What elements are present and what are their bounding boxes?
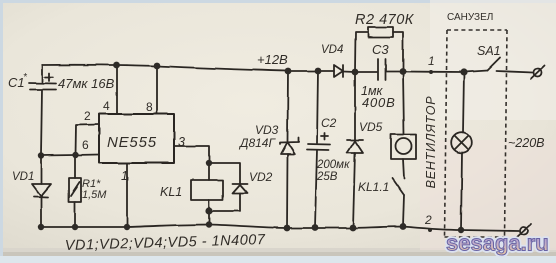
wire top rail right of VD4 [343, 71, 355, 74]
wire SA1 to pivot [464, 71, 487, 73]
svg-text:KL1.1: KL1.1 [358, 180, 389, 194]
svg-text:R2 470К: R2 470К [355, 12, 415, 28]
svg-text:1: 1 [428, 54, 435, 68]
svg-text:KL1: KL1 [160, 185, 182, 199]
capacitor C3 [378, 59, 386, 80]
svg-text:ВЕНТИЛЯТОР: ВЕНТИЛЯТОР [424, 96, 438, 189]
fan motor M1 [391, 72, 416, 178]
svg-text:NE555: NE555 [107, 134, 157, 151]
diode VD4 [334, 65, 343, 77]
wire pin3 to relay [174, 146, 209, 180]
dashed enclosure (bathroom) [445, 30, 508, 237]
node pin8 rail [154, 63, 161, 70]
svg-text:САНУЗЕЛ: САНУЗЕЛ [447, 12, 493, 23]
node A (VD4/C3/R2/VD5) [352, 69, 359, 76]
capacitor C2 [307, 71, 330, 227]
node pin4 rail [113, 62, 120, 69]
node pin2/6 junction [72, 152, 78, 158]
svg-text:VD4: VD4 [321, 44, 343, 56]
svg-text:400В: 400В [362, 95, 396, 110]
svg-text:Д814Г: Д814Г [238, 136, 276, 150]
node 1 marker [429, 70, 433, 74]
node VD3 rail [285, 68, 292, 75]
node VD3 bottom rail [284, 225, 291, 232]
node KL1.1 bottom rail [400, 223, 407, 230]
terminal neutral bottom [517, 225, 531, 238]
node VD2 top [206, 160, 212, 166]
resistor R1 [69, 155, 81, 227]
svg-text:~220В: ~220В [508, 136, 545, 150]
node pin1 bottom rail [124, 224, 130, 230]
svg-text:1,5М: 1,5М [82, 189, 107, 201]
svg-text:3: 3 [178, 135, 185, 149]
node VD1 bottom rail [38, 224, 44, 230]
svg-text:VD2: VD2 [249, 170, 273, 184]
node KL1 bottom rail [206, 221, 212, 227]
wire C3 right plate to SA1 junction [386, 71, 464, 74]
wire pin1 [126, 163, 128, 227]
resistor R2 [355, 27, 403, 72]
svg-text:4: 4 [103, 99, 110, 113]
diode VD5 [347, 72, 363, 228]
watermark sesaga.ru [446, 231, 549, 256]
svg-text:1: 1 [121, 169, 128, 183]
relay coil KL1 [191, 180, 223, 224]
zener diode VD3 [280, 71, 299, 228]
wire top rail left (+12V rail) [42, 65, 334, 71]
svg-text:VD3: VD3 [255, 123, 279, 137]
capacitor C1 [29, 65, 56, 155]
wire pin4 [116, 65, 118, 114]
node SA1 / lamp [460, 68, 467, 75]
diode VD1 [32, 157, 51, 227]
svg-text:47мк 16В: 47мк 16В [58, 76, 115, 91]
node C1/pin6 [38, 152, 44, 158]
op-amp U1 NE555 box [99, 114, 174, 163]
node lamp bottom rail [458, 227, 464, 233]
svg-text:C3: C3 [372, 42, 389, 57]
switch SA1 [487, 58, 533, 73]
node C3 right / fan [400, 68, 407, 75]
node C2 rail [315, 68, 322, 75]
wire bottom rail [41, 225, 519, 232]
svg-text:200мк: 200мк [316, 159, 350, 171]
svg-text:+12В: +12В [257, 52, 288, 67]
lamp EL1 [451, 72, 472, 230]
switch contact KL1.1 [392, 178, 404, 226]
node VD2 bottom [205, 207, 212, 214]
diode VD2 [209, 163, 248, 211]
svg-text:6: 6 [82, 138, 89, 152]
wire pin6 horizontal [41, 155, 99, 156]
wire pin8 [156, 66, 158, 114]
wire pin2 bend [76, 125, 100, 156]
svg-text:2: 2 [84, 109, 91, 123]
terminal phase top [531, 66, 545, 80]
node VD5 bottom rail [350, 225, 357, 232]
svg-text:8: 8 [146, 100, 153, 114]
svg-text:SA1: SA1 [477, 44, 501, 58]
wire node A to C3 left plate [355, 71, 377, 73]
svg-text:VD5: VD5 [359, 120, 383, 134]
svg-text:VD1: VD1 [12, 171, 34, 183]
node R1 bottom rail [72, 224, 78, 230]
node C2 bottom rail [312, 224, 319, 231]
svg-text:25В: 25В [316, 171, 338, 183]
node 2 marker [428, 228, 432, 232]
svg-text:C2: C2 [321, 116, 337, 130]
svg-text:sesaga.ru: sesaga.ru [446, 231, 549, 256]
svg-text:2: 2 [424, 213, 432, 227]
